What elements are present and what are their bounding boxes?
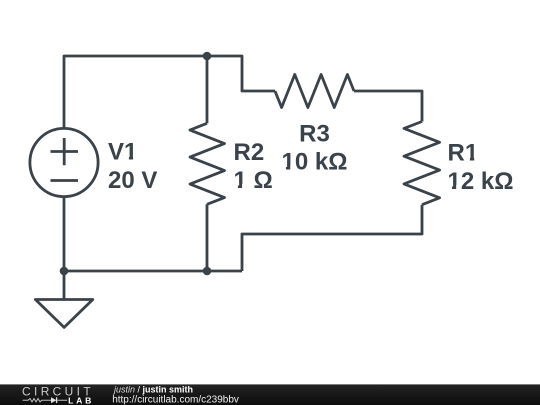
svg-text:12 kΩ: 12 kΩ [448,168,514,195]
svg-text:20 V: 20 V [108,167,157,194]
svg-text:http://circuitlab.com/c239bbv: http://circuitlab.com/c239bbv [112,395,239,405]
junction node dot ground [60,267,69,276]
wire: V1 top lead + top rail + jog to R3 [64,56,275,128]
svg-text:R3: R3 [299,121,330,148]
V1 plus sign [51,138,79,165]
resistor R3 [275,75,354,108]
svg-text:R1: R1 [448,139,479,166]
footer black bar [0,384,540,405]
wire: R2 bottom lead [206,204,209,271]
resistor R1 [404,122,440,205]
logo diode cathode bar [56,397,58,403]
logo diode triangle [51,397,56,403]
svg-text:justin / justin smith: justin / justin smith [113,384,193,394]
ground triangle [35,300,92,328]
wire: bottom rail [64,270,242,273]
wire: R3 right lead to R1 top [354,91,422,122]
white masks squaring the digit-1 feet (font correction) [125,156,479,190]
ground stem [63,271,66,300]
V1 minus sign [51,179,79,182]
svg-text:R2: R2 [234,139,265,166]
svg-text:V1: V1 [108,139,137,166]
svg-text:LAB: LAB [68,395,94,405]
wire: R2 top lead [206,56,209,123]
junction node dot top (R2/top rail) [203,52,212,61]
wire: R1 bottom return [242,205,422,271]
logo resistor zigzag and diode symbol [23,399,68,402]
voltage source V1 circle [30,128,98,196]
wire: V1 bottom lead [63,197,66,271]
svg-text:1 Ω: 1 Ω [234,167,273,194]
svg-text:10 kΩ: 10 kΩ [282,149,348,176]
junction node dot bottom (R2/bottom rail) [203,267,212,276]
resistor R2 [190,123,225,204]
